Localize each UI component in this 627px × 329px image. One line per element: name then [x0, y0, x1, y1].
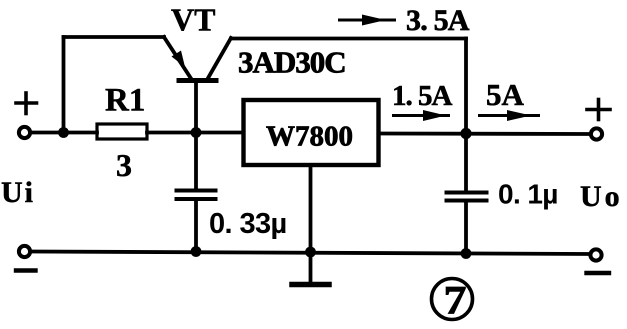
- wire top to transistor emitter: [64, 35, 165, 39]
- wire base down to rail: [194, 83, 198, 133]
- polarity + right: [587, 100, 610, 120]
- capacitor C2 0.1u bottom lead: [464, 202, 468, 254]
- svg-text:3: 3: [116, 147, 132, 183]
- wire input to R1: [31, 131, 98, 135]
- capacitor C2 0.1u top lead: [464, 134, 468, 192]
- node C2 bottom junction: [461, 248, 472, 259]
- figure number 7 circled: [432, 278, 473, 323]
- capacitor C2 0.1u plates: [447, 191, 487, 195]
- transistor VT emitter arrow: [172, 51, 186, 68]
- svg-text:0. 33µ: 0. 33µ: [209, 208, 287, 240]
- op-amp U1 W7800 regulator box: [244, 100, 379, 165]
- capacitor C1 0.33u top lead: [194, 133, 198, 189]
- polarity + left: [16, 93, 37, 114]
- svg-text:VT: VT: [171, 2, 215, 38]
- transistor VT emitter: [164, 37, 191, 79]
- wire regulator output to terminal: [379, 132, 591, 136]
- wire bottom rail: [31, 252, 591, 255]
- transistor VT collector: [208, 38, 232, 79]
- terminal input + circle: [19, 127, 30, 138]
- terminal output + circle: [591, 128, 602, 139]
- terminal input - circle: [19, 246, 30, 257]
- current arrow 1.5A: [392, 110, 450, 121]
- node C1 bottom junction: [191, 246, 202, 257]
- current arrow 5A: [478, 110, 540, 121]
- node ground pin junction: [305, 247, 316, 258]
- terminal output - circle: [590, 249, 601, 260]
- transistor VT base bar: [179, 78, 216, 83]
- ground: [292, 282, 329, 288]
- resistor R1 body: [97, 124, 147, 139]
- wire regulator ground pin: [309, 165, 313, 283]
- wire collector to right corner: [231, 37, 466, 41]
- polarity - left: [16, 268, 36, 272]
- svg-text:5A: 5A: [486, 77, 525, 112]
- node input junction: [58, 127, 69, 138]
- svg-text:1. 5A: 1. 5A: [392, 80, 453, 112]
- wire vertical down to output rail: [464, 39, 468, 134]
- svg-text:W7800: W7800: [266, 121, 353, 153]
- capacitor C1 0.33u bottom lead: [194, 200, 198, 252]
- svg-text:7: 7: [444, 278, 467, 323]
- capacitor C1 0.33u plates: [177, 189, 216, 193]
- node base/R1 junction: [191, 127, 202, 138]
- wire R1 to regulator: [147, 131, 243, 135]
- svg-text:R1: R1: [105, 83, 145, 119]
- polarity - right: [587, 271, 610, 275]
- svg-text:3AD30C: 3AD30C: [238, 45, 346, 80]
- node output junction: [460, 128, 471, 139]
- wire vertical up from input node: [62, 37, 66, 133]
- svg-text:3. 5A: 3. 5A: [406, 4, 470, 37]
- svg-text:Uo: Uo: [580, 180, 623, 213]
- svg-text:Ui: Ui: [1, 176, 35, 209]
- current arrow 3.5A: [338, 15, 396, 26]
- svg-text:0. 1µ: 0. 1µ: [498, 179, 558, 210]
